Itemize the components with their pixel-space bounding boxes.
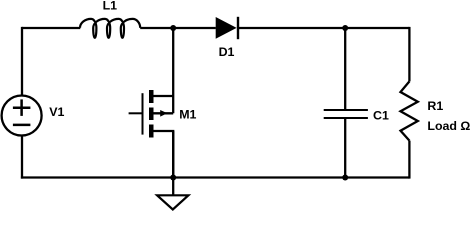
svg-text:L1: L1 — [103, 0, 118, 12]
svg-text:V1: V1 — [49, 105, 64, 119]
svg-text:Load Ω: Load Ω — [427, 119, 470, 133]
svg-text:R1: R1 — [427, 99, 443, 113]
svg-text:M1: M1 — [179, 108, 196, 122]
svg-text:C1: C1 — [373, 109, 389, 123]
svg-text:D1: D1 — [219, 45, 235, 59]
